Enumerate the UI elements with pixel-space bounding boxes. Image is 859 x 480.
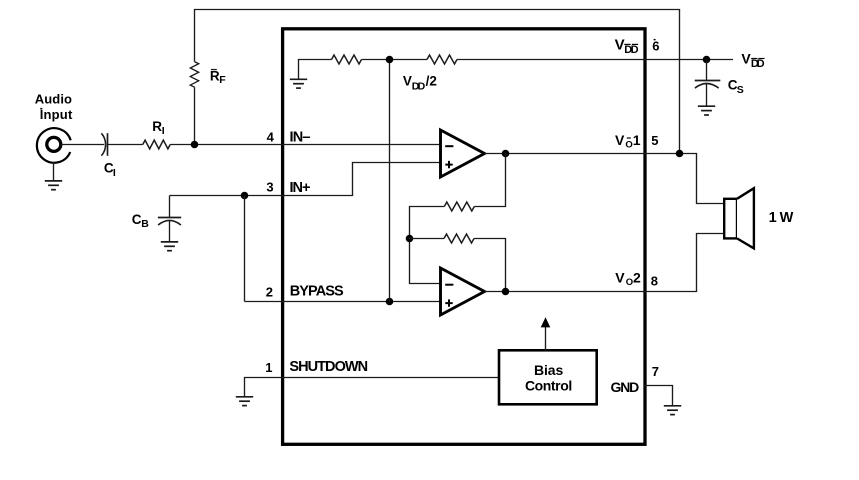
- svg-text:Control: Control: [525, 378, 572, 394]
- bias control arrow: [545, 326, 547, 350]
- wire: VDD pin 6 line out to VDD terminal: [457, 59, 733, 61]
- svg-text:7: 7: [652, 364, 659, 379]
- wire: left vertical from IN+ node down to BYPASS: [244, 196, 246, 302]
- resistor divider R2: [427, 55, 457, 64]
- svg-text:I: I: [113, 167, 116, 179]
- node: IN- / RF junction: [191, 141, 199, 149]
- svg-text:V: V: [615, 37, 625, 54]
- svg-text:IN–: IN–: [290, 129, 311, 145]
- wire: U1 output down to feedback resistor row: [474, 154, 505, 207]
- svg-text:O: O: [625, 140, 632, 151]
- RF overbar artifact: [211, 69, 217, 70]
- svg-text:Bias: Bias: [534, 362, 564, 378]
- capacitor CS: [695, 80, 721, 82]
- svg-text:BYPASS: BYPASS: [290, 284, 344, 300]
- node: internal node between Ra and Rb: [406, 235, 414, 243]
- resistor RF: [190, 62, 198, 88]
- resistor internal feedback Rb: [444, 234, 474, 243]
- svg-text:1: 1: [633, 132, 641, 148]
- audio input jack: [37, 128, 71, 163]
- ground (CB): [161, 242, 178, 251]
- svg-text:Audio: Audio: [35, 92, 72, 107]
- node: VDD / CS junction: [703, 56, 711, 64]
- svg-text:SHUTDOWN: SHUTDOWN: [289, 359, 368, 375]
- svg-text:F: F: [219, 74, 226, 86]
- svg-text:R: R: [152, 119, 162, 134]
- svg-text:S: S: [737, 84, 744, 96]
- resistor divider R1: [332, 55, 362, 64]
- node: BYPASS / VDD2 junction: [386, 298, 394, 306]
- wire: CI to RI: [108, 144, 143, 146]
- capacitor CI: [101, 133, 105, 155]
- wire: VDD/2 vertical: [389, 60, 391, 302]
- svg-text:2: 2: [633, 269, 641, 285]
- svg-text:1: 1: [265, 360, 272, 375]
- svg-text:IN+: IN+: [290, 180, 311, 196]
- svg-text:5: 5: [651, 133, 658, 148]
- wire: top feedback loop from RF top to VO1 node: [195, 10, 680, 154]
- wire: SHUTDOWN line from ground stub through pin 1 to bias control: [245, 378, 500, 397]
- op-amp U1: [441, 130, 485, 177]
- wire: VO1 line from U1 output through pin 5 to speaker top: [485, 154, 725, 204]
- ground (divider): [290, 79, 307, 88]
- speaker: [724, 199, 737, 239]
- svg-text:B: B: [141, 218, 149, 230]
- resistor internal feedback Ra: [444, 202, 474, 211]
- svg-text:3: 3: [266, 180, 273, 195]
- wire: CS branch down: [706, 60, 708, 81]
- wire: between divider resistors: [362, 59, 428, 61]
- svg-text:V: V: [615, 132, 625, 148]
- node: U1 output: [502, 150, 510, 158]
- ground (shutdown): [236, 397, 253, 406]
- node: VO1 / feedback junction: [676, 150, 684, 158]
- op-amp U2: [441, 268, 485, 315]
- node: IN+ / CB-BYPASS junction: [241, 192, 249, 200]
- node: VDD/2 tap: [386, 56, 394, 64]
- svg-text:Input: Input: [40, 107, 73, 122]
- svg-text:O: O: [626, 277, 633, 288]
- wire: jack to CI: [61, 144, 104, 146]
- svg-text:V: V: [615, 269, 625, 285]
- svg-text:GND: GND: [611, 379, 640, 395]
- wire: GND pin 7 to ground: [644, 386, 673, 406]
- ground (CS): [698, 106, 715, 115]
- wire: VO2 line from U2 output through pin 8 to speaker bottom: [485, 234, 725, 292]
- text labels: [35, 92, 73, 122]
- svg-text:2: 2: [266, 284, 273, 299]
- wire: Ra to U2 inverting input: [410, 207, 445, 284]
- svg-text:W: W: [780, 210, 794, 226]
- node: U2 output: [502, 288, 510, 296]
- svg-text:1: 1: [769, 210, 777, 226]
- ground (audio input): [45, 181, 62, 190]
- resistor RI: [143, 140, 170, 149]
- bias control box: [499, 350, 597, 404]
- wire: IN+ line from CB tap through pin 3, step up to U1 + input: [170, 163, 441, 196]
- wire: divider ground to resistor: [299, 60, 332, 80]
- wire: CB branch down: [169, 196, 171, 218]
- svg-text:V: V: [741, 50, 751, 66]
- svg-text:DD: DD: [624, 44, 638, 56]
- svg-text:4: 4: [267, 129, 275, 144]
- wire: node to Rb: [410, 238, 445, 240]
- ground (GND pin): [664, 406, 681, 415]
- svg-text:DD: DD: [412, 80, 426, 92]
- wire: Rb to U2 output: [474, 239, 506, 292]
- svg-text:DD: DD: [751, 58, 765, 70]
- wire: IN- line from RI through pin 4 to op-amp U1 inverting input: [170, 144, 440, 146]
- IC boundary box: [283, 29, 645, 445]
- svg-text:V: V: [403, 73, 412, 88]
- svg-text:8: 8: [651, 273, 658, 288]
- wire: BYPASS line through pin 2 to U2 + input: [245, 301, 441, 303]
- wire: RF bottom to IN- node: [194, 87, 196, 144]
- svg-text:I: I: [162, 125, 165, 137]
- capacitor CB: [158, 217, 181, 219]
- svg-text:/2: /2: [426, 73, 437, 88]
- wire: jack to ground: [53, 162, 55, 181]
- svg-text:6: 6: [652, 38, 659, 53]
